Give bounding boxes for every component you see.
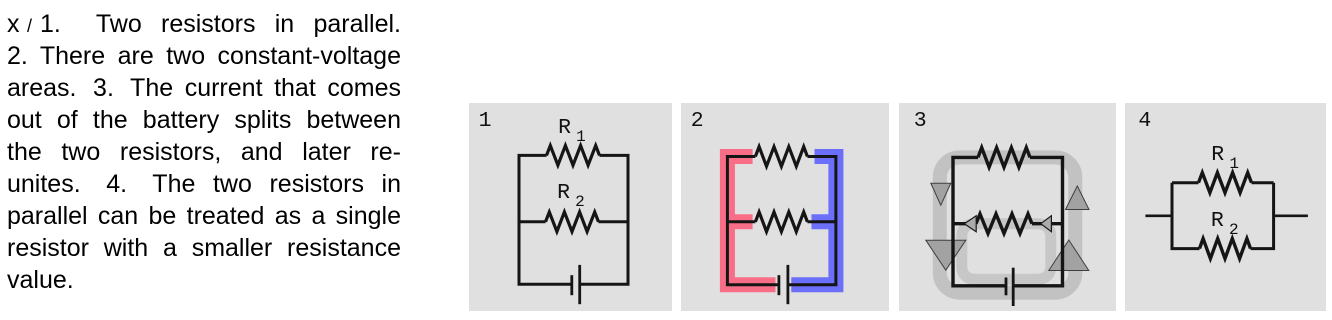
wire: right external lead <box>1274 214 1308 217</box>
battery B1 long positive plate <box>579 265 582 304</box>
label R1 <box>1211 145 1239 172</box>
battery long plate <box>1012 267 1015 305</box>
battery long plate <box>786 265 789 304</box>
battery B1 short negative plate <box>571 275 574 295</box>
current arrow lower-right (up, large) <box>1049 240 1089 270</box>
panel label 3 <box>914 111 927 133</box>
wire: panel1 outer loop <box>519 155 628 284</box>
panel label 4 <box>1138 111 1151 133</box>
node highlight: pink constant-voltage area (left) <box>727 156 775 284</box>
current arrow upper-left (down) <box>931 183 951 205</box>
resistor (top branch) <box>755 146 807 166</box>
caption text block <box>7 8 401 296</box>
node highlight: blue constant-voltage area (right) <box>791 156 836 284</box>
current flow ribbon: outer loop ring <box>940 157 1075 292</box>
resistor (top branch) <box>978 147 1030 167</box>
panel label 1 <box>479 111 492 133</box>
label R1 <box>558 118 586 145</box>
wire: middle branch left <box>953 222 976 225</box>
current arrow upper-right (up) <box>1066 186 1089 209</box>
wire: middle branch left <box>727 220 755 223</box>
current arrowhead middle branch left <box>964 215 976 231</box>
wire: parallel box <box>1172 182 1274 248</box>
current arrow lower-left (down, large) <box>926 240 966 270</box>
wire: panel3 outer loop <box>953 157 1062 285</box>
panel label 2 <box>691 111 704 133</box>
panel 4 background <box>1125 103 1326 312</box>
wire: middle branch right <box>599 220 628 223</box>
label R2 <box>1211 211 1239 238</box>
panel 2 background <box>681 103 890 312</box>
label R2 <box>557 183 585 210</box>
resistor R2 <box>1200 238 1251 258</box>
resistor (middle branch) <box>976 214 1032 234</box>
current arrowhead middle branch right <box>1041 215 1052 231</box>
wire: middle branch right <box>807 220 835 223</box>
wire: middle branch right <box>1032 222 1062 225</box>
wire: left external lead <box>1146 214 1173 217</box>
panel 1 background <box>469 103 672 312</box>
wire: panel2 outer loop <box>727 156 835 284</box>
battery short plate <box>1005 277 1008 295</box>
current flow ribbon: inner bottom-loop ring <box>962 223 1051 278</box>
resistor R1 <box>547 145 600 165</box>
wire: middle branch left <box>519 220 545 223</box>
resistor R1 <box>1199 172 1252 192</box>
resistor R2 <box>546 212 599 232</box>
resistor (middle branch) <box>755 212 807 232</box>
battery short plate <box>777 275 780 295</box>
panel 3 background <box>899 103 1116 312</box>
